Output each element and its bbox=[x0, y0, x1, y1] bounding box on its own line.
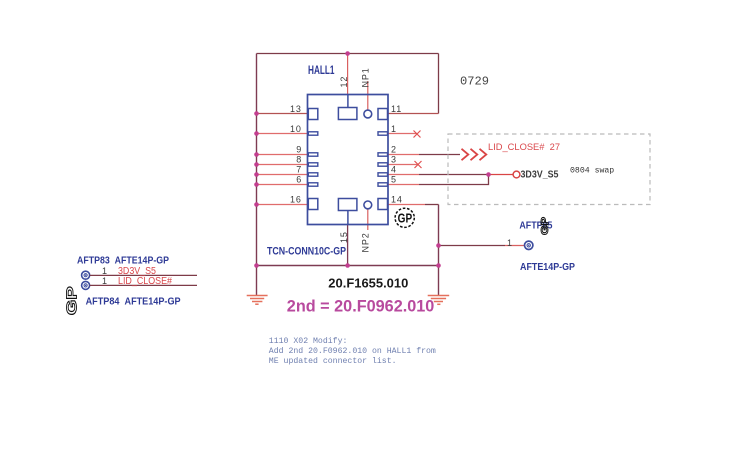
svg-text:LID_CLOSE# 27: LID_CLOSE# 27 bbox=[488, 142, 560, 153]
wire NP1 stub bbox=[367, 81, 369, 110]
pin NP2 pad circle bbox=[364, 201, 372, 209]
wire pin 15 stub to ground bus bbox=[347, 210, 349, 225]
wire pin 11 stub bbox=[388, 113, 439, 115]
svg-text:10: 10 bbox=[290, 124, 302, 134]
wire pin 14 stub bbox=[388, 204, 425, 206]
wire NP2 stub bbox=[367, 209, 369, 230]
junction node on rail at pin 12 bbox=[345, 51, 350, 56]
svg-text:11: 11 bbox=[391, 104, 402, 114]
no-connect X pin 1 bbox=[414, 131, 421, 138]
junction node AFTP85 branch bbox=[436, 243, 441, 248]
wire bottom ground bus bbox=[257, 265, 439, 267]
pin 13 pad bbox=[308, 109, 318, 120]
junction node pin 15 at bus bbox=[345, 263, 350, 268]
svg-text:NP2: NP2 bbox=[360, 232, 370, 252]
svg-text:0804 swap: 0804 swap bbox=[570, 167, 614, 176]
ground right bbox=[428, 296, 450, 305]
junction node pin 8 bbox=[254, 162, 259, 167]
svg-text:13: 13 bbox=[290, 104, 302, 114]
pin 3 pad bbox=[378, 163, 388, 166]
svg-text:1: 1 bbox=[391, 124, 397, 134]
svg-text:2nd = 20.F0962.010: 2nd = 20.F0962.010 bbox=[287, 297, 435, 316]
wire pin 3 stub (no connect) bbox=[388, 164, 418, 166]
svg-text:GP: GP bbox=[64, 286, 80, 315]
pin 12 pad bbox=[338, 108, 357, 120]
pin 4 pad bbox=[378, 173, 388, 176]
junction node left bus to ground bbox=[254, 263, 259, 268]
svg-text:1: 1 bbox=[102, 276, 108, 286]
pin 14 pad bbox=[378, 199, 388, 210]
wire pin 4 net 3D3V_S5 bbox=[388, 174, 419, 176]
wire pin 16 stub bbox=[257, 204, 308, 206]
pin 16 pad bbox=[308, 199, 318, 210]
test point AFTP84 circle bbox=[82, 281, 90, 289]
junction node pin 13 bbox=[254, 111, 259, 116]
junction node pin 6 bbox=[254, 182, 259, 187]
ground left bbox=[247, 296, 268, 305]
wire left vertical bus bbox=[256, 54, 258, 296]
wire right vertical top (pin 11 to rail) bbox=[438, 54, 440, 114]
pin 7 pad bbox=[308, 173, 318, 176]
notes 1110 X02 Modify bbox=[269, 336, 436, 366]
svg-text:6: 6 bbox=[296, 175, 302, 185]
svg-text:9: 9 bbox=[296, 145, 302, 155]
svg-text:4: 4 bbox=[391, 165, 397, 175]
wire pin 2 net LID_CLOSE# bbox=[388, 154, 419, 156]
wire pin 8 stub bbox=[257, 164, 308, 166]
wire test point AFTP85 bbox=[439, 245, 506, 247]
svg-text:1: 1 bbox=[507, 238, 513, 248]
pin 11 pad bbox=[378, 109, 388, 120]
wire AFTP84 net LID_CLOSE# bbox=[90, 284, 197, 286]
port arrows LID_CLOSE# bbox=[462, 149, 487, 160]
svg-text:LID_CLOSE#: LID_CLOSE# bbox=[118, 276, 172, 287]
wire pin 6 stub bbox=[257, 184, 308, 186]
pin 1 pad bbox=[378, 132, 388, 135]
pin 10 pad bbox=[308, 132, 318, 135]
test point AFTP85 circle bbox=[525, 241, 533, 249]
pin 15 pad bbox=[338, 199, 357, 211]
svg-text:5: 5 bbox=[391, 175, 397, 185]
svg-text:3: 3 bbox=[391, 155, 397, 165]
wire pin 12 stub to rail bbox=[347, 54, 349, 95]
svg-text:0729: 0729 bbox=[460, 75, 489, 89]
junction node pin 10 bbox=[254, 131, 259, 136]
svg-text:20.F1655.010: 20.F1655.010 bbox=[328, 275, 408, 290]
pin 6 pad bbox=[308, 183, 318, 186]
junction node right bus bbox=[436, 263, 441, 268]
junction node pin 9 bbox=[254, 152, 259, 157]
dashed option box bbox=[448, 134, 650, 205]
connector U HALL1 body bbox=[308, 95, 389, 225]
svg-text:7: 7 bbox=[296, 165, 302, 175]
svg-text:1: 1 bbox=[102, 266, 108, 276]
svg-text:HALL1: HALL1 bbox=[308, 63, 335, 77]
svg-text:12: 12 bbox=[339, 76, 349, 88]
svg-text:GP: GP bbox=[540, 217, 551, 235]
svg-text:16: 16 bbox=[290, 195, 302, 205]
svg-text:15: 15 bbox=[339, 231, 349, 243]
svg-text:1110 X02 Modify:: 1110 X02 Modify: bbox=[269, 336, 348, 346]
svg-text:ME updated connector list.: ME updated connector list. bbox=[269, 356, 397, 366]
junction node pin5/pin4 net bbox=[486, 172, 491, 177]
svg-text:AFTE14P-GP: AFTE14P-GP bbox=[520, 262, 575, 273]
junction node pin 16 bbox=[254, 202, 259, 207]
port circle 3D3V_S5 bbox=[513, 171, 520, 178]
pin 5 pad bbox=[378, 183, 388, 186]
wire right vertical bottom (pin 14 to ground) bbox=[438, 205, 440, 296]
svg-text:NP1: NP1 bbox=[361, 67, 371, 87]
wire top rail net bbox=[257, 53, 439, 55]
wire pin 5 stub joining pin 4 net bbox=[388, 184, 419, 186]
svg-text:GP: GP bbox=[398, 211, 413, 225]
test point AFTP83 circle bbox=[82, 271, 90, 279]
pin 9 pad bbox=[308, 153, 318, 156]
svg-text:AFTP83 AFTE14P-GP: AFTP83 AFTE14P-GP bbox=[77, 256, 169, 267]
GP logo near pin 14 bbox=[395, 208, 414, 227]
svg-text:8: 8 bbox=[296, 155, 302, 165]
wire pin 1 stub (no connect) bbox=[388, 133, 417, 135]
junction node pin 7 bbox=[254, 172, 259, 177]
svg-text:3D3V_S5: 3D3V_S5 bbox=[521, 170, 559, 181]
svg-text:14: 14 bbox=[391, 195, 403, 205]
wire pin 10 stub bbox=[257, 133, 308, 135]
svg-text:2: 2 bbox=[391, 145, 397, 155]
wire AFTP83 net 3D3V_S5 bbox=[90, 274, 197, 276]
wire pin 9 stub bbox=[257, 154, 308, 156]
wire pin 7 stub bbox=[257, 174, 308, 176]
pin 8 pad bbox=[308, 163, 318, 166]
wire pin 13 stub bbox=[257, 113, 308, 115]
svg-text:TCN-CONN10C-GP: TCN-CONN10C-GP bbox=[267, 246, 346, 258]
svg-text:Add 2nd 20.F0962.010 on HALL1: Add 2nd 20.F0962.010 on HALL1 from bbox=[269, 346, 436, 356]
pin NP1 pad circle bbox=[364, 110, 372, 118]
svg-text:AFTP84 AFTE14P-GP: AFTP84 AFTE14P-GP bbox=[86, 296, 181, 307]
no-connect X pin 3 bbox=[415, 161, 422, 168]
pin 2 pad bbox=[378, 153, 388, 156]
